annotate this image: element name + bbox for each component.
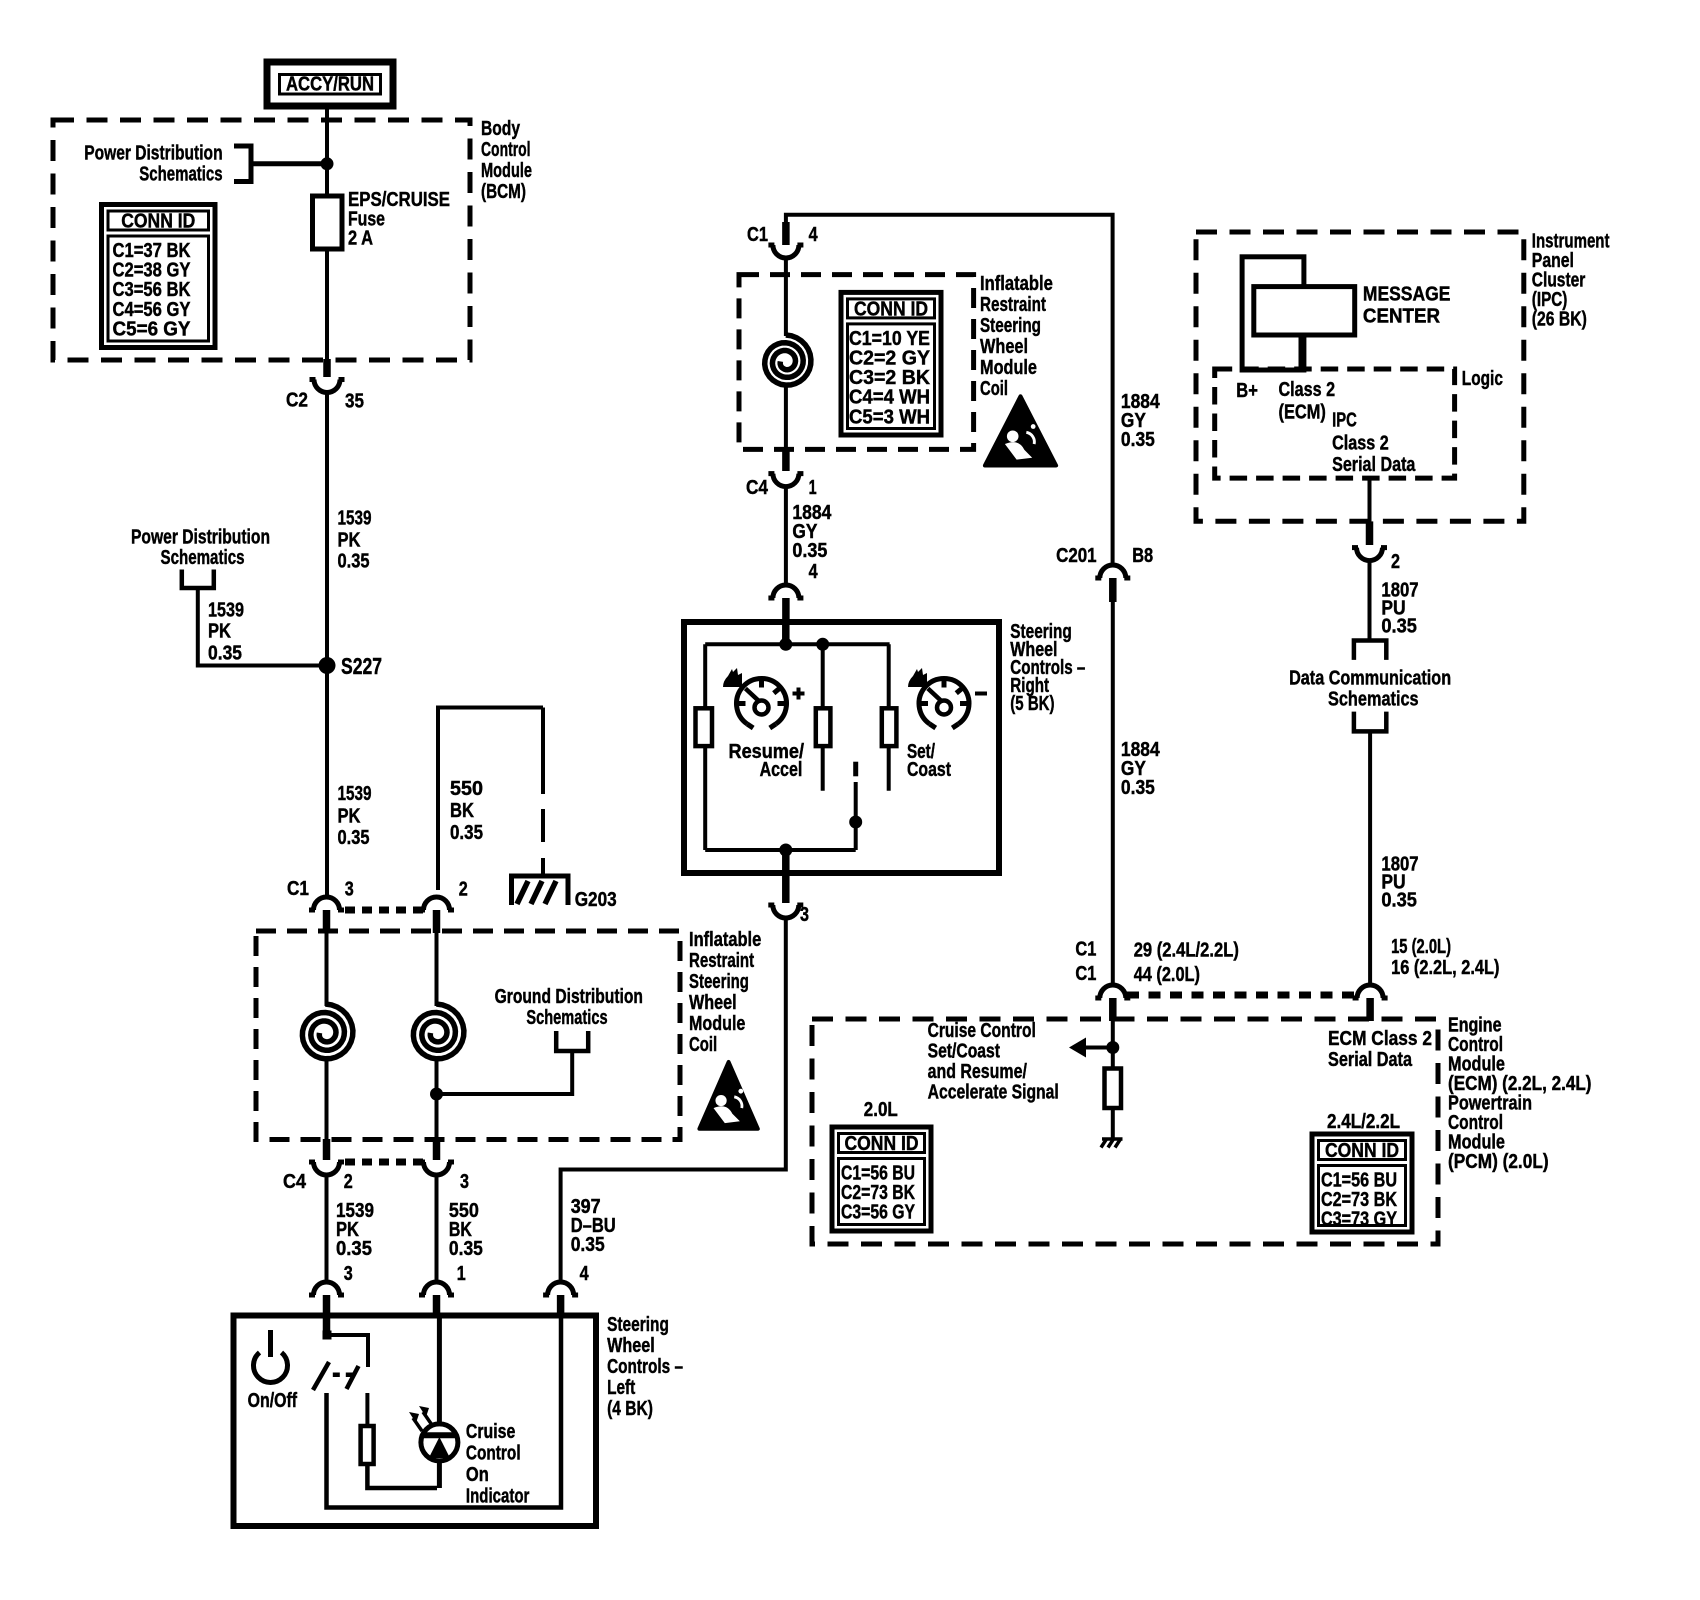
wire 550 BK riser to ground branch	[438, 708, 543, 891]
svg-text:(PCM) (2.0L): (PCM) (2.0L)	[1448, 1151, 1549, 1173]
svg-text:Schematics: Schematics	[139, 164, 222, 186]
IPC dashed box	[1196, 232, 1524, 521]
svg-text:Controls –: Controls –	[607, 1356, 683, 1378]
splice S227	[319, 657, 336, 674]
connector C2 pin 35	[323, 359, 331, 377]
resistor (indicator dropping)	[361, 1426, 374, 1464]
CONN ID table (BCM)	[102, 205, 216, 348]
svg-text:1539: 1539	[338, 783, 372, 805]
connector pin 3 at switch	[314, 1282, 340, 1295]
dashed wire to G203	[541, 708, 545, 795]
svg-text:2 A: 2 A	[348, 228, 373, 250]
resistor (set/coast)	[816, 708, 831, 746]
svg-text:Set/Coast: Set/Coast	[928, 1041, 1001, 1063]
wire fuse to C2	[325, 249, 329, 362]
off-page reference: Data Communication Schematics	[1354, 641, 1386, 660]
svg-text:(4 BK): (4 BK)	[607, 1398, 653, 1420]
internal ground	[1102, 1137, 1123, 1141]
svg-text:2.0L: 2.0L	[864, 1099, 898, 1121]
svg-text:C1: C1	[1075, 963, 1096, 985]
wire from ACCY/RUN into BCM	[325, 106, 329, 197]
svg-text:Class 2: Class 2	[1332, 433, 1389, 455]
svg-text:C5=6 GY: C5=6 GY	[113, 318, 192, 340]
svg-text:15 (2.0L): 15 (2.0L)	[1391, 936, 1451, 958]
svg-text:Body: Body	[481, 118, 521, 140]
wire reference to coil 2	[437, 1051, 573, 1094]
connector C1 tie dotted line	[345, 907, 424, 914]
resistor (ECM pull)	[1105, 1069, 1122, 1109]
wire switch right pole to resistor	[365, 1393, 369, 1427]
svg-text:Restraint: Restraint	[689, 950, 754, 972]
connector C4 pin 3	[433, 1139, 441, 1160]
wire 1884 GY C201 to ECM	[1111, 602, 1115, 986]
switch blade left	[313, 1362, 329, 1390]
svg-text:C201: C201	[1056, 545, 1097, 567]
svg-text:On: On	[466, 1464, 489, 1486]
CONN ID table (coil module)	[841, 292, 941, 435]
svg-text:ECM Class 2: ECM Class 2	[1328, 1028, 1432, 1050]
connector pin 4 at SWC-Right	[773, 585, 799, 598]
svg-text:Inflatable: Inflatable	[689, 929, 761, 951]
signal arrow	[1082, 1046, 1113, 1050]
svg-text:1: 1	[809, 477, 817, 499]
svg-text:Wheel: Wheel	[689, 992, 737, 1014]
resistor (set gauge branch)	[882, 708, 897, 746]
connector C1 pin 2 (coil module)	[424, 897, 450, 910]
junction on coil 2 wire	[430, 1088, 443, 1101]
svg-text:Logic: Logic	[1462, 368, 1503, 390]
svg-text:Steering: Steering	[980, 315, 1041, 337]
svg-text:1539: 1539	[208, 600, 244, 622]
svg-text:Serial Data: Serial Data	[1332, 454, 1416, 476]
connector C4 pin 2	[323, 1139, 331, 1160]
connector C1 (1884 GY into ECM)	[1100, 985, 1126, 998]
switch gang dashes	[333, 1373, 356, 1378]
svg-text:0.35: 0.35	[336, 1238, 372, 1260]
internal bus wire	[705, 642, 889, 646]
svg-text:3: 3	[344, 1263, 353, 1285]
svg-text:Schematics: Schematics	[161, 547, 245, 569]
resume/accel branch wire left	[703, 644, 707, 850]
svg-text:0.35: 0.35	[450, 822, 483, 844]
svg-text:CONN ID: CONN ID	[121, 211, 195, 233]
svg-text:B8: B8	[1132, 545, 1153, 567]
svg-text:Coil: Coil	[689, 1034, 717, 1056]
clockspring coil 1	[325, 933, 329, 1006]
wire 550 BK to switch	[435, 1174, 439, 1283]
svg-text:0.35: 0.35	[338, 827, 370, 849]
Steering Wheel Controls Left box	[234, 1316, 597, 1527]
wire 1539 PK from C2 to S227	[325, 391, 329, 666]
Inflatable Restraint SWM Coil dashed box (lower)	[256, 931, 680, 1140]
svg-text:550: 550	[450, 778, 483, 800]
airbag warning symbol (upper)	[985, 396, 1056, 465]
wire from reference to S227	[198, 588, 327, 666]
svg-text:B+: B+	[1236, 380, 1258, 402]
wire 1884 GY coil to SWC-Right	[784, 485, 788, 587]
svg-text:Left: Left	[607, 1377, 635, 1399]
svg-text:Steering: Steering	[607, 1314, 669, 1336]
svg-text:Module: Module	[689, 1013, 745, 1035]
svg-text:Module: Module	[980, 357, 1037, 379]
svg-text:CENTER: CENTER	[1363, 305, 1441, 327]
svg-text:4: 4	[809, 561, 819, 583]
fuse EPS/CRUISE 2A	[313, 196, 343, 249]
svg-text:Indicator: Indicator	[466, 1486, 530, 1508]
svg-text:Data Communication: Data Communication	[1289, 668, 1451, 690]
svg-text:4: 4	[580, 1263, 590, 1285]
svg-text:0.35: 0.35	[1381, 616, 1417, 638]
svg-text:and Resume/: and Resume/	[928, 1061, 1028, 1083]
message center symbol back	[1242, 257, 1304, 370]
svg-text:0.35: 0.35	[449, 1238, 483, 1260]
BCM module dashed box	[53, 120, 470, 360]
Steering Wheel Controls Right box	[684, 622, 999, 873]
wire logic to IPC connector	[1368, 478, 1372, 545]
wire message center to logic	[1299, 335, 1304, 369]
power feed ACCY/RUN box	[267, 62, 393, 106]
svg-text:Serial Data: Serial Data	[1328, 1049, 1413, 1071]
svg-text:3: 3	[345, 879, 354, 901]
set gauge icon	[919, 678, 969, 724]
svg-text:Power Distribution: Power Distribution	[84, 143, 222, 165]
wire 1539 PK to switch	[325, 1174, 329, 1283]
connector C1 pin 3 (coil module)	[314, 897, 340, 910]
junction on switch pole	[849, 816, 862, 829]
clockspring coil 2	[435, 933, 439, 1006]
svg-text:CONN ID: CONN ID	[845, 1133, 919, 1155]
svg-text:Control: Control	[466, 1443, 521, 1465]
svg-text:Ground Distribution: Ground Distribution	[495, 986, 643, 1008]
On/Off power symbol	[254, 1353, 288, 1383]
resistor (resume/accel)	[696, 708, 713, 746]
middle branch resistor wire	[821, 644, 825, 708]
On/Off switch contact	[323, 1331, 332, 1340]
svg-text:CONN ID: CONN ID	[854, 298, 928, 320]
svg-text:IPC: IPC	[1332, 410, 1357, 432]
svg-text:G203: G203	[575, 889, 617, 911]
svg-text:Coil: Coil	[980, 378, 1008, 400]
svg-text:3: 3	[800, 904, 809, 926]
svg-text:(26 BK): (26 BK)	[1532, 309, 1587, 331]
svg-text:29 (2.4L/2.2L): 29 (2.4L/2.2L)	[1134, 940, 1239, 962]
svg-text:0.35: 0.35	[1381, 890, 1417, 912]
svg-text:Schematics: Schematics	[1328, 689, 1419, 711]
connector pin 1 at switch	[424, 1282, 450, 1295]
junction at arrow	[1106, 1041, 1119, 1054]
svg-text:4: 4	[809, 224, 819, 246]
junction at output	[779, 844, 792, 857]
svg-text:CONN ID: CONN ID	[1325, 1140, 1399, 1162]
svg-text:Inflatable: Inflatable	[980, 273, 1053, 295]
junction on feed wire	[321, 157, 334, 170]
LED Cruise Control On Indicator	[421, 1424, 458, 1461]
svg-text:C4: C4	[746, 477, 769, 499]
svg-text:1539: 1539	[338, 508, 372, 530]
svg-text:BK: BK	[450, 800, 474, 822]
svg-text:ACCY/RUN: ACCY/RUN	[286, 74, 374, 96]
Logic dashed box	[1215, 369, 1455, 478]
LED emission arrows	[413, 1418, 422, 1431]
svg-text:Accelerate Signal: Accelerate Signal	[928, 1082, 1059, 1104]
LED wire	[437, 1318, 442, 1488]
svg-text:0.35: 0.35	[571, 1234, 605, 1256]
svg-text:C5=3 WH: C5=3 WH	[849, 406, 930, 428]
ground G203	[512, 876, 569, 905]
svg-text:Cruise Control: Cruise Control	[928, 1020, 1036, 1042]
wire 1807 PU to data comm ref	[1368, 560, 1372, 641]
svg-text:16 (2.2L, 2.4L): 16 (2.2L, 2.4L)	[1391, 957, 1499, 979]
svg-text:44 (2.0L): 44 (2.0L)	[1134, 964, 1200, 986]
svg-text:2: 2	[459, 879, 468, 901]
entry stub into SWC-Right	[782, 622, 790, 649]
svg-text:0.35: 0.35	[208, 643, 242, 665]
svg-text:Accel: Accel	[760, 759, 803, 781]
airbag warning symbol (lower)	[699, 1062, 757, 1129]
message center symbol front	[1254, 287, 1355, 335]
connector pin 3 (SWC-Right out)	[773, 905, 799, 918]
connector pin 2 (IPC)	[1357, 548, 1383, 561]
svg-text:Cruise: Cruise	[466, 1421, 515, 1443]
svg-text:C3=56 GY: C3=56 GY	[841, 1202, 916, 1224]
wire into load resistor	[1111, 1021, 1115, 1069]
switch pole blade	[853, 762, 858, 777]
svg-text:2: 2	[344, 1171, 353, 1193]
wire resistor to ground	[1111, 1108, 1115, 1139]
ECM/PCM dashed box	[812, 1019, 1438, 1244]
svg-text:Steering: Steering	[689, 971, 749, 993]
svg-text:Class 2: Class 2	[1279, 379, 1336, 401]
svg-text:Wheel: Wheel	[607, 1335, 655, 1357]
svg-text:PK: PK	[208, 621, 231, 643]
svg-text:C3=73 GY: C3=73 GY	[1321, 1209, 1398, 1231]
svg-text:0.35: 0.35	[792, 540, 827, 562]
svg-text:S227: S227	[341, 653, 382, 679]
wire bracket to splice on feed	[251, 161, 327, 166]
connector pin 4 at switch	[548, 1282, 574, 1295]
switch blade right	[347, 1366, 359, 1389]
coil module dashed box (upper)	[739, 275, 974, 450]
svg-text:2: 2	[1391, 551, 1400, 573]
connector C4 tie dotted line	[345, 1159, 424, 1166]
svg-text:PK: PK	[338, 806, 361, 828]
clockspring coil (upper)	[784, 257, 788, 336]
wire from coil C1 to C201 riser	[786, 215, 1113, 563]
svg-text:Control: Control	[481, 139, 531, 161]
svg-text:Coast: Coast	[907, 759, 951, 781]
connector C1 tie dotted line	[1127, 992, 1355, 999]
connector C1 (serial data)	[1357, 985, 1383, 998]
wire resistor to LED cathode	[367, 1464, 437, 1488]
svg-text:0.35: 0.35	[338, 551, 370, 573]
svg-text:C2: C2	[286, 390, 308, 412]
resume gauge icon	[737, 678, 787, 724]
svg-text:MESSAGE: MESSAGE	[1363, 284, 1451, 306]
svg-text:(5 BK): (5 BK)	[1010, 693, 1054, 715]
bottom bus wire	[705, 848, 856, 852]
wire switch to 397 output	[327, 1318, 562, 1508]
wire 1539 PK from S227 to C1	[325, 666, 329, 898]
svg-text:Wheel: Wheel	[980, 336, 1028, 358]
svg-text:2.4L/2.2L: 2.4L/2.2L	[1327, 1111, 1400, 1133]
output stub	[782, 850, 790, 903]
svg-text:C1: C1	[287, 878, 309, 900]
wire 397 D-BU from SWC-Right to switch	[561, 918, 786, 1283]
wire 1807 PU ref to ECM	[1368, 731, 1372, 986]
svg-text:Restraint: Restraint	[980, 294, 1046, 316]
svg-text:Module: Module	[481, 160, 532, 182]
svg-text:1: 1	[457, 1263, 466, 1285]
svg-text:35: 35	[345, 391, 364, 413]
svg-text:C1: C1	[1075, 939, 1096, 961]
connector C4 pin 1 (coil out)	[782, 449, 790, 471]
svg-text:3: 3	[460, 1171, 469, 1193]
svg-text:C1: C1	[747, 224, 768, 246]
svg-text:0.35: 0.35	[1121, 777, 1155, 799]
svg-text:(BCM): (BCM)	[481, 181, 526, 203]
svg-text:On/Off: On/Off	[248, 1390, 298, 1412]
junction dots on bus	[779, 638, 792, 651]
svg-text:Schematics: Schematics	[526, 1007, 607, 1029]
svg-text:0.35: 0.35	[1121, 429, 1155, 451]
svg-text:(ECM): (ECM)	[1279, 402, 1326, 424]
svg-text:PK: PK	[338, 530, 361, 552]
svg-text:C4: C4	[283, 1171, 307, 1193]
svg-text:Power Distribution: Power Distribution	[131, 527, 270, 549]
set/coast gauge branch	[887, 644, 891, 708]
